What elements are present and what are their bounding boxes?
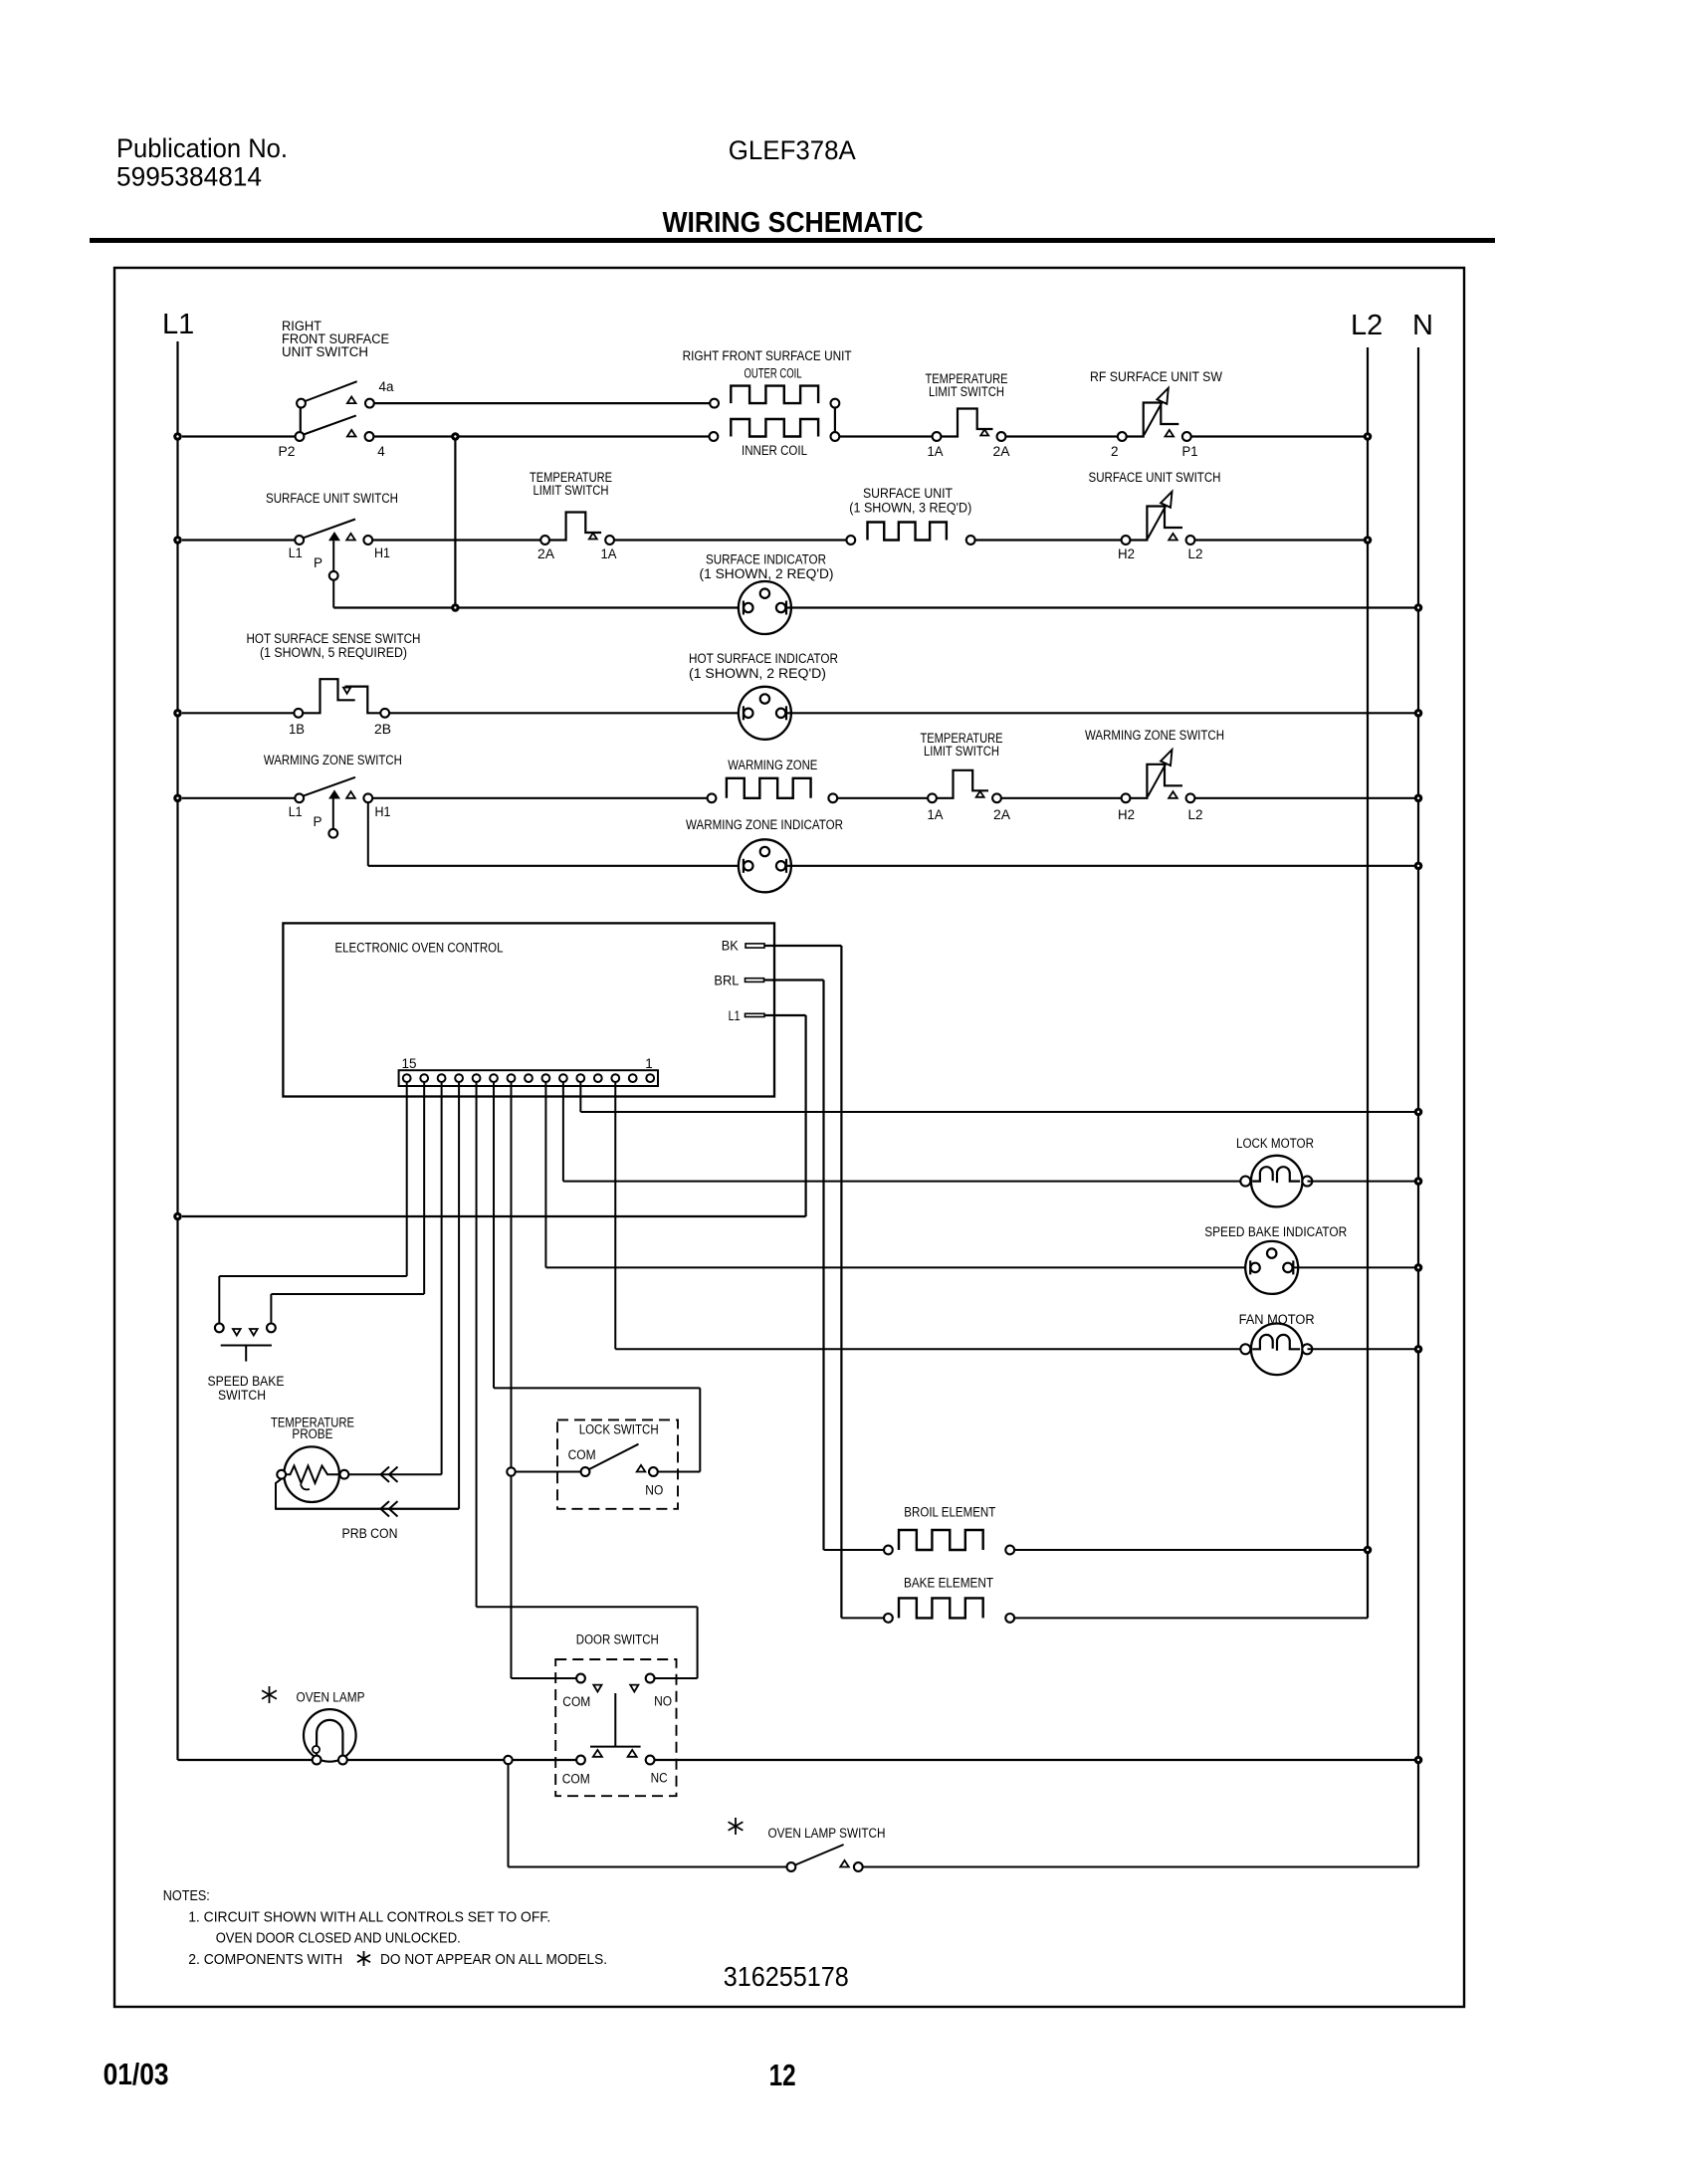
svg-text:RIGHT FRONT SURFACE UNIT: RIGHT FRONT SURFACE UNIT [683, 348, 852, 363]
svg-text:WARMING ZONE INDICATOR: WARMING ZONE INDICATOR [686, 817, 843, 832]
svg-text:2A: 2A [993, 444, 1010, 459]
svg-text:NO: NO [654, 1694, 672, 1709]
svg-text:316255178: 316255178 [724, 1961, 849, 1992]
svg-text:(1 SHOWN, 2 REQ'D): (1 SHOWN, 2 REQ'D) [700, 566, 834, 581]
svg-text:SURFACE UNIT: SURFACE UNIT [863, 486, 953, 501]
svg-text:GLEF378A: GLEF378A [729, 135, 856, 165]
svg-text:SPEED BAKE INDICATOR: SPEED BAKE INDICATOR [1204, 1224, 1347, 1239]
svg-text:H2: H2 [1118, 546, 1135, 561]
svg-text:N: N [1412, 310, 1433, 341]
svg-text:2. COMPONENTS WITH: 2. COMPONENTS WITH [188, 1951, 342, 1968]
svg-text:OVEN LAMP: OVEN LAMP [297, 1690, 365, 1705]
svg-text:1A: 1A [928, 444, 944, 459]
svg-text:01/03: 01/03 [104, 2057, 169, 2091]
svg-text:SURFACE UNIT SWITCH: SURFACE UNIT SWITCH [266, 491, 398, 506]
svg-text:SWITCH: SWITCH [218, 1388, 266, 1403]
svg-text:L1: L1 [162, 309, 194, 340]
svg-text:1A: 1A [601, 546, 617, 561]
svg-text:4a: 4a [379, 379, 394, 394]
svg-text:1B: 1B [289, 722, 305, 737]
svg-text:Publication No.: Publication No. [116, 133, 288, 163]
svg-text:OVEN LAMP SWITCH: OVEN LAMP SWITCH [768, 1826, 886, 1841]
svg-text:WARMING ZONE SWITCH: WARMING ZONE SWITCH [1085, 728, 1224, 743]
svg-text:COM: COM [568, 1447, 596, 1462]
svg-text:BRL: BRL [714, 974, 739, 988]
svg-text:NOTES:: NOTES: [163, 1887, 210, 1904]
svg-text:RF SURFACE UNIT SW: RF SURFACE UNIT SW [1090, 369, 1222, 384]
svg-text:SPEED BAKE: SPEED BAKE [208, 1374, 285, 1389]
svg-text:BROIL ELEMENT: BROIL ELEMENT [904, 1505, 995, 1520]
svg-text:(1 SHOWN, 3 REQ'D): (1 SHOWN, 3 REQ'D) [849, 501, 971, 516]
svg-text:L2: L2 [1188, 807, 1203, 822]
svg-text:2A: 2A [993, 807, 1010, 822]
svg-text:P2: P2 [279, 444, 296, 459]
svg-text:(1 SHOWN, 2 REQ'D): (1 SHOWN, 2 REQ'D) [689, 666, 826, 681]
svg-text:NO: NO [645, 1483, 663, 1498]
svg-text:HOT SURFACE SENSE SWITCH: HOT SURFACE SENSE SWITCH [247, 631, 421, 646]
svg-text:WARMING ZONE: WARMING ZONE [728, 758, 817, 772]
svg-text:H1: H1 [375, 804, 391, 819]
svg-text:SURFACE INDICATOR: SURFACE INDICATOR [706, 552, 826, 567]
svg-text:L2: L2 [1188, 546, 1203, 561]
svg-text:P1: P1 [1182, 444, 1198, 459]
svg-text:NC: NC [651, 1771, 668, 1786]
svg-text:LIMIT SWITCH: LIMIT SWITCH [929, 384, 1004, 399]
svg-text:BK: BK [722, 939, 739, 954]
svg-text:ELECTRONIC OVEN CONTROL: ELECTRONIC OVEN CONTROL [335, 940, 504, 955]
svg-text:LIMIT SWITCH: LIMIT SWITCH [534, 483, 609, 498]
svg-text:H1: H1 [374, 545, 390, 560]
svg-text:LIMIT SWITCH: LIMIT SWITCH [924, 744, 999, 759]
svg-text:DO NOT APPEAR ON ALL MODE: DO NOT APPEAR ON ALL MODELS. [380, 1951, 607, 1968]
svg-text:OUTER COIL: OUTER COIL [745, 366, 802, 381]
svg-text:PROBE: PROBE [292, 1426, 332, 1441]
svg-text:1A: 1A [928, 807, 944, 822]
svg-text:L1: L1 [729, 1008, 741, 1023]
svg-text:UNIT SWITCH: UNIT SWITCH [282, 344, 368, 359]
svg-text:1. CIRCUIT SHOWN WITH ALL: 1. CIRCUIT SHOWN WITH ALL CONTROLS SET T… [188, 1909, 550, 1926]
svg-text:LOCK SWITCH: LOCK SWITCH [579, 1422, 659, 1437]
svg-text:BAKE ELEMENT: BAKE ELEMENT [904, 1576, 993, 1591]
svg-text:15: 15 [402, 1056, 417, 1071]
svg-text:L2: L2 [1351, 310, 1383, 341]
svg-text:4: 4 [377, 444, 385, 459]
svg-text:2B: 2B [374, 722, 391, 737]
svg-text:2A: 2A [537, 546, 554, 561]
svg-text:WIRING SCHEMATIC: WIRING SCHEMATIC [663, 207, 924, 239]
svg-text:COM: COM [562, 1772, 590, 1787]
svg-text:PRB CON: PRB CON [342, 1526, 398, 1541]
svg-text:2: 2 [1111, 444, 1119, 459]
svg-text:5995384814: 5995384814 [116, 162, 262, 192]
svg-text:(1 SHOWN, 5 REQUIRED): (1 SHOWN, 5 REQUIRED) [260, 645, 407, 660]
svg-text:12: 12 [769, 2058, 796, 2092]
svg-text:COM: COM [562, 1694, 590, 1709]
svg-text:WARMING ZONE SWITCH: WARMING ZONE SWITCH [264, 753, 402, 767]
svg-text:INNER COIL: INNER COIL [742, 443, 807, 458]
svg-text:DOOR SWITCH: DOOR SWITCH [576, 1633, 659, 1647]
svg-text:P: P [313, 814, 321, 829]
svg-text:L1: L1 [289, 804, 303, 819]
svg-text:P: P [314, 555, 322, 570]
svg-text:OVEN DOOR CLOSED AND UNLOC: OVEN DOOR CLOSED AND UNLOCKED. [216, 1930, 461, 1947]
svg-text:SURFACE UNIT SWITCH: SURFACE UNIT SWITCH [1089, 470, 1221, 485]
svg-text:HOT SURFACE INDICATOR: HOT SURFACE INDICATOR [689, 651, 838, 666]
svg-text:L1: L1 [289, 545, 303, 560]
svg-text:LOCK MOTOR: LOCK MOTOR [1236, 1136, 1314, 1151]
svg-text:1: 1 [645, 1056, 653, 1071]
svg-text:H2: H2 [1118, 807, 1135, 822]
